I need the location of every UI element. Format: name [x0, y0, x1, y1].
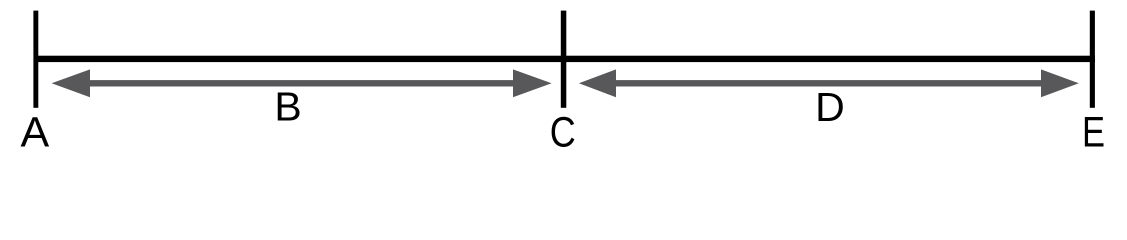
node C tick [561, 11, 567, 108]
svg-text:B: B [274, 84, 301, 130]
wire: horizontal segment line A-E [34, 56, 1095, 62]
arrow B (double-headed, A to C) [52, 69, 552, 97]
svg-text:D: D [815, 84, 845, 130]
svg-text:C: C [550, 109, 576, 153]
node A tick [33, 11, 38, 108]
arrow D (double-headed, C to E) [579, 69, 1079, 97]
svg-text:A: A [21, 109, 50, 153]
node E tick [1090, 11, 1095, 108]
svg-text:E: E [1082, 109, 1105, 153]
